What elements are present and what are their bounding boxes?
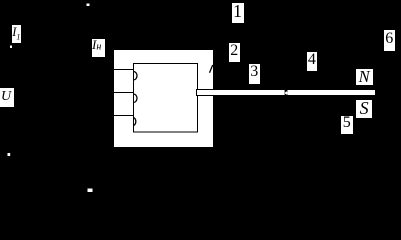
callout 5 xyxy=(341,116,353,134)
callout 4 xyxy=(307,52,318,72)
speck bottom-left xyxy=(8,153,11,156)
pole label S xyxy=(356,100,372,118)
label U (voltage) xyxy=(0,88,14,107)
speck top xyxy=(87,4,90,7)
callout 2 xyxy=(229,43,241,62)
core (coil body) rectangle xyxy=(134,64,198,133)
armature rod (plunger) xyxy=(197,90,376,96)
wire lead 1 xyxy=(114,69,135,71)
wire lead 2 xyxy=(114,92,135,94)
speck below I1 xyxy=(10,46,12,49)
speck bottom-middle xyxy=(88,189,93,193)
white drawing panel xyxy=(114,50,213,147)
coil turn arc 1 xyxy=(134,72,138,81)
coil turn arc 3 xyxy=(134,118,136,126)
label I1 (coil current) xyxy=(12,25,22,43)
label Iн (armature current) xyxy=(92,39,105,57)
rod gap diamond mark xyxy=(285,91,288,95)
callout 1 xyxy=(232,3,244,23)
pole label N xyxy=(356,69,373,85)
wire lead 3 xyxy=(114,115,135,117)
rod gap xyxy=(285,88,288,97)
coil turn arc 2 xyxy=(134,94,138,103)
callout 6 xyxy=(384,30,395,51)
callout 3 xyxy=(249,64,261,84)
leader line fragment to label 2 xyxy=(210,65,213,73)
